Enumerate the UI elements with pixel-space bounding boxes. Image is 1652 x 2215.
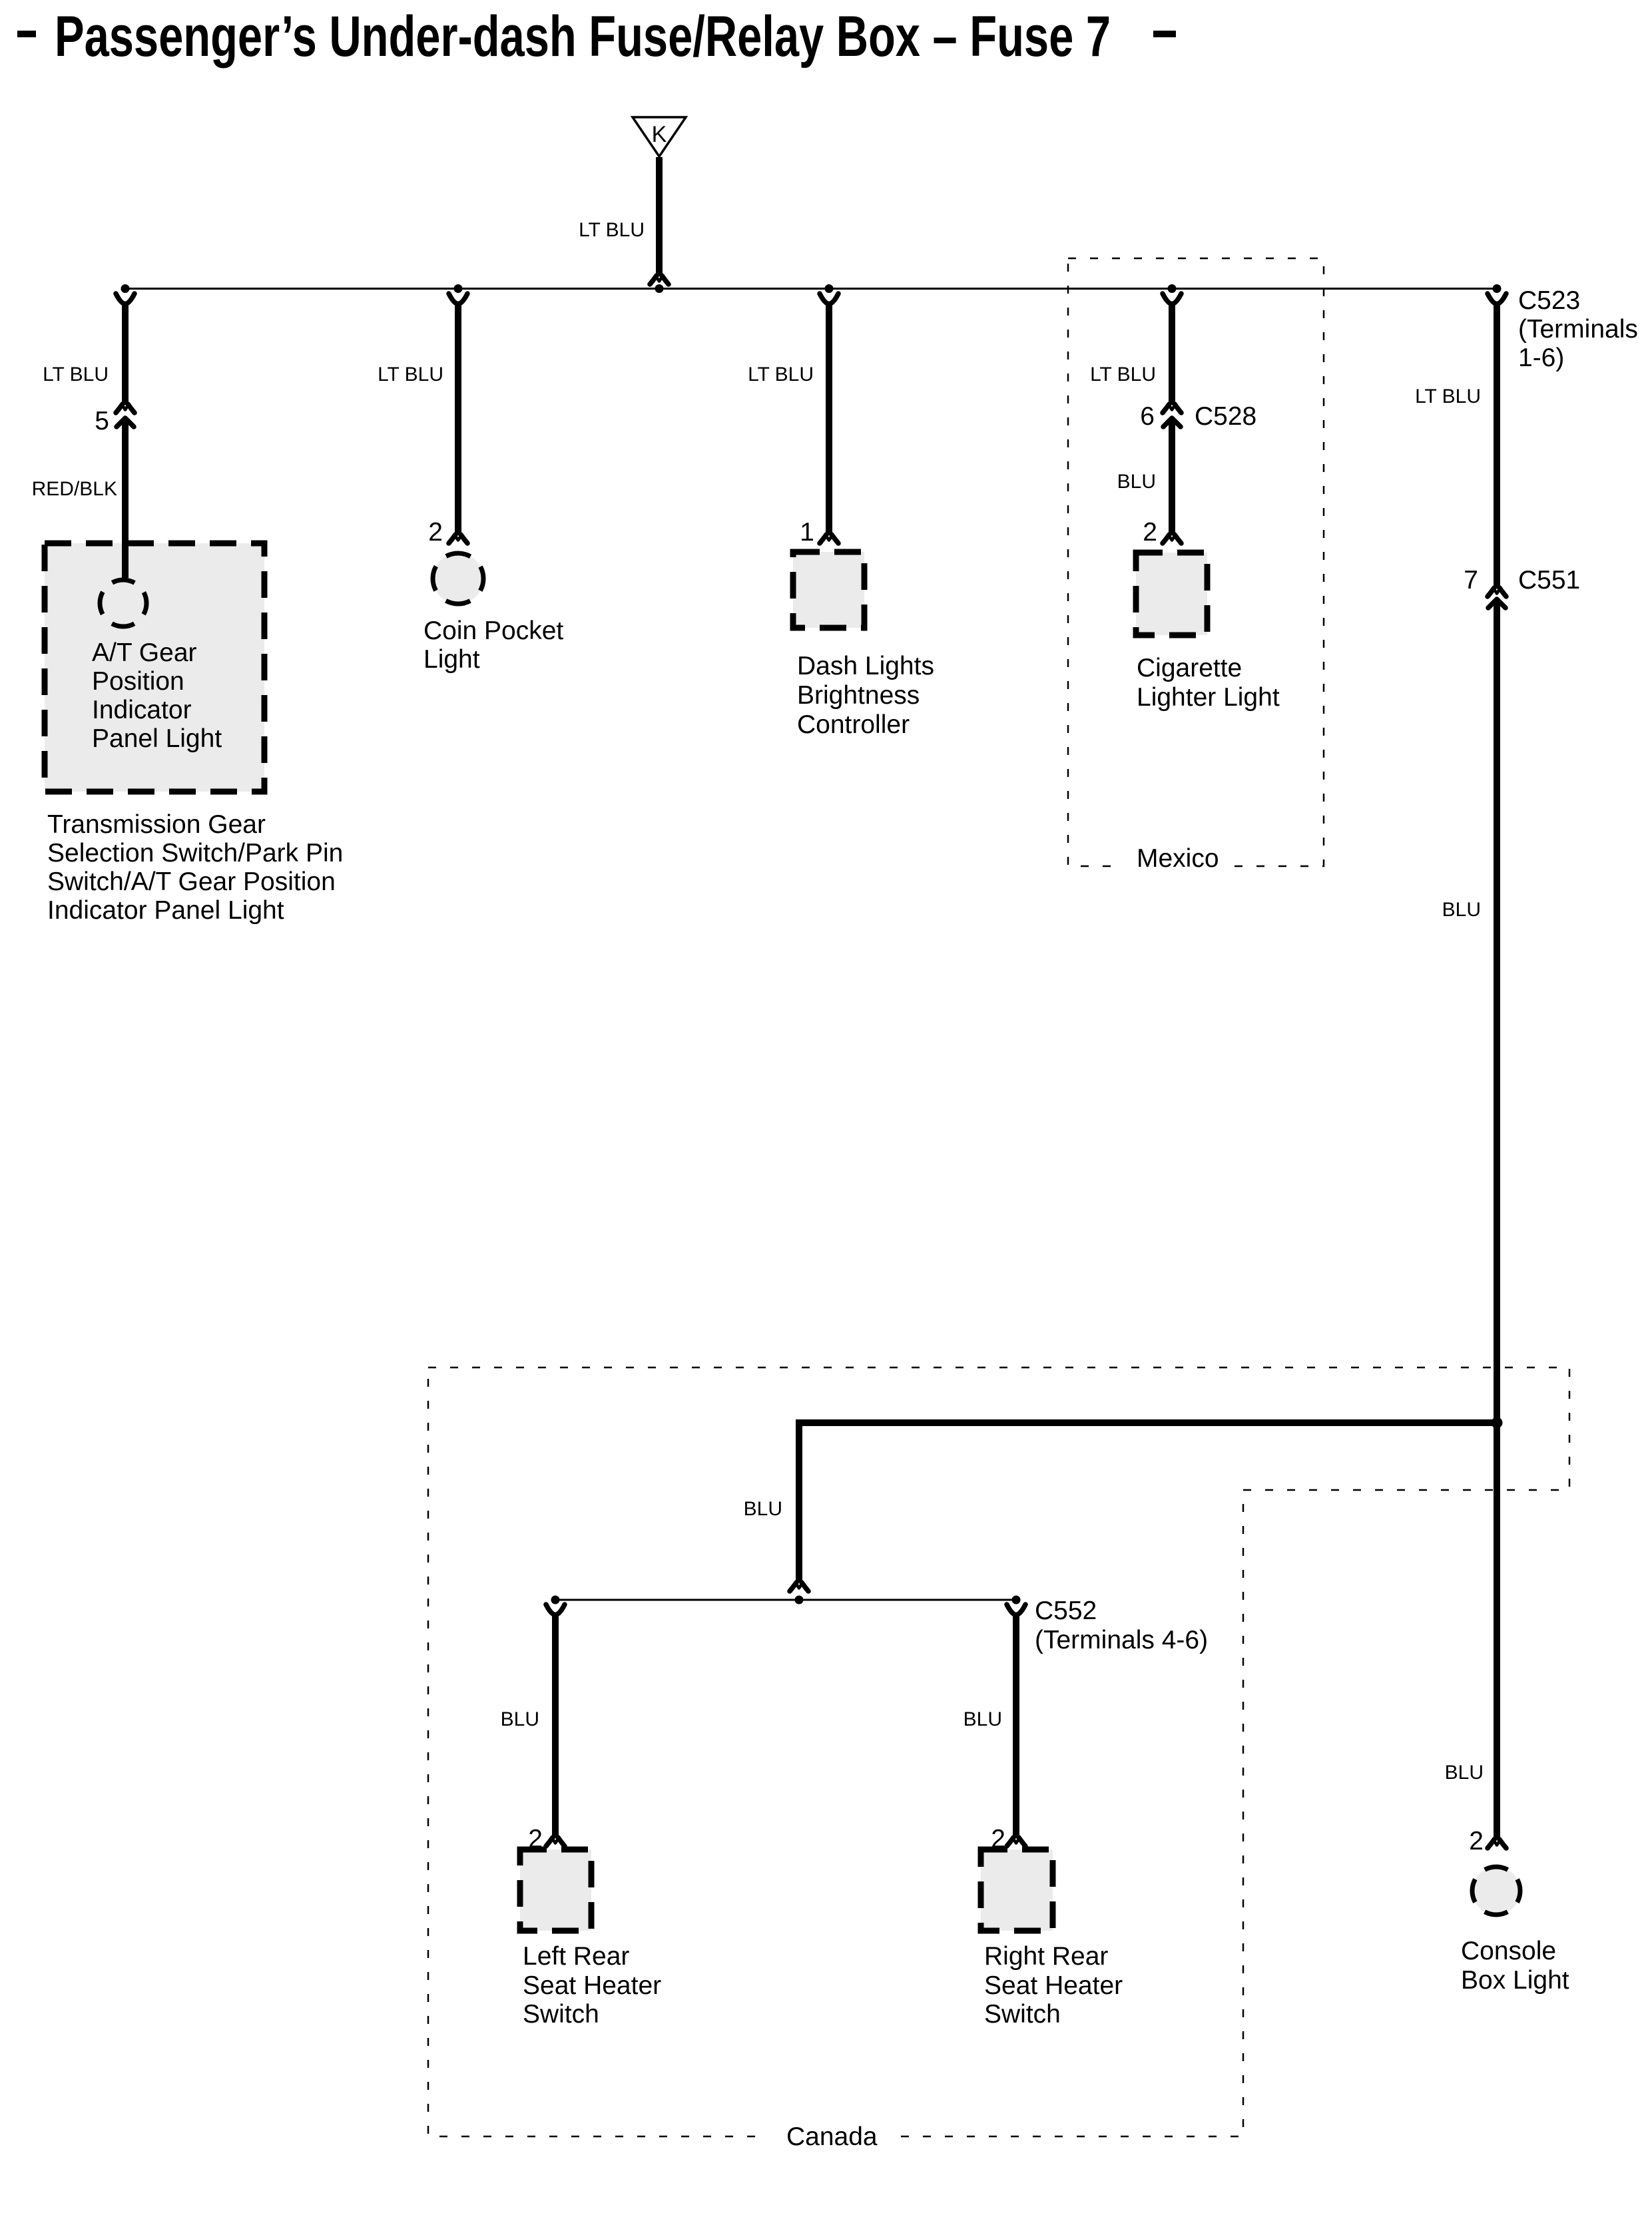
svg-text:Position: Position	[92, 667, 184, 696]
svg-text:C551: C551	[1518, 566, 1580, 595]
inline connector terminal 7, C551	[1464, 566, 1580, 608]
svg-text:BLU: BLU	[964, 1708, 1002, 1730]
svg-text:5: 5	[95, 407, 109, 435]
label: Canada	[762, 2120, 889, 2152]
svg-text:(Terminals 4-6): (Terminals 4-6)	[1035, 1626, 1208, 1654]
label: Right Rear Seat Heater Switch	[984, 1942, 1123, 2029]
svg-text:LT BLU: LT BLU	[1415, 385, 1481, 407]
female terminal below bus (C523 feed)	[1488, 294, 1506, 304]
svg-text:A/T Gear: A/T Gear	[92, 638, 197, 667]
svg-text:Dash Lights: Dash Lights	[797, 652, 934, 680]
svg-text:K: K	[652, 122, 667, 147]
node: bus junction cigarette lighter	[1168, 284, 1177, 293]
male terminal pin 2 (console box light)	[1469, 1827, 1506, 1855]
svg-text:Transmission Gear: Transmission Gear	[47, 810, 266, 839]
svg-text:Switch: Switch	[984, 2000, 1061, 2029]
svg-text:Seat Heater: Seat Heater	[984, 1971, 1123, 2000]
svg-text:1-6): 1-6)	[1518, 344, 1564, 372]
female terminal below bus (dash lights controller)	[820, 294, 838, 304]
label: Transmission Gear Selection Switch/Park Pin Switch	[47, 810, 343, 925]
node: splice junction (console/C552 tap)	[1492, 1417, 1503, 1429]
inline connector terminal 6, C528	[1140, 402, 1256, 431]
node: bus junction coin pocket light	[454, 284, 463, 293]
label: C523 (Terminals 1-6)	[1518, 286, 1638, 372]
svg-text:Right Rear: Right Rear	[984, 1942, 1108, 1971]
wire: left rear seat heater branch, BLU	[501, 1612, 555, 1838]
node: C552 bus left	[551, 1596, 560, 1604]
label: Coin Pocket Light	[423, 616, 563, 674]
wire: branch 1 lower, RED/BLK	[32, 421, 125, 578]
svg-text:Switch/A/T Gear Position: Switch/A/T Gear Position	[47, 867, 336, 896]
svg-text:LT BLU: LT BLU	[748, 364, 814, 385]
wire: splice to C552 bus, BLU	[744, 1423, 1497, 1583]
female terminal below C552 bus (left)	[546, 1604, 565, 1615]
svg-text:Brightness: Brightness	[797, 681, 920, 710]
svg-text:C528: C528	[1195, 402, 1256, 431]
svg-text:Box Light: Box Light	[1461, 1966, 1569, 1995]
wire: branch 1 upper, LT BLU	[43, 302, 125, 405]
svg-text:LT BLU: LT BLU	[43, 364, 109, 385]
title	[17, 5, 1176, 69]
label: C552 (Terminals 4-6)	[1035, 1597, 1208, 1654]
label: Console Box Light	[1461, 1937, 1569, 1995]
female terminal below bus (branch 1)	[116, 294, 135, 304]
wire: right rear seat heater branch, BLU	[964, 1612, 1016, 1838]
svg-text:2: 2	[1469, 1827, 1484, 1855]
wire: coin pocket light branch, LT BLU	[378, 302, 458, 535]
svg-text:Seat Heater: Seat Heater	[523, 1971, 661, 2000]
wire: top bus splice (LT BLU)	[125, 288, 1497, 290]
wire: main feed upper, LT BLU	[1415, 302, 1497, 589]
female terminal below C552 bus (right)	[1007, 1604, 1025, 1615]
node: bus junction dash lights controller	[825, 284, 834, 293]
svg-text:Panel Light: Panel Light	[92, 724, 222, 753]
svg-text:Console: Console	[1461, 1937, 1556, 1965]
wire: cigarette lighter branch lower, BLU	[1117, 421, 1172, 535]
lamp: A/T gear position indicator panel light	[100, 580, 146, 626]
svg-text:Switch: Switch	[523, 2000, 599, 2029]
svg-text:7: 7	[1464, 566, 1478, 595]
female terminal below bus (cigarette lighter)	[1163, 294, 1181, 304]
node: bus junction C523 feed	[1493, 284, 1502, 293]
svg-text:Passenger’s Under-dash Fuse/Re: Passenger’s Under-dash Fuse/Relay Box – …	[55, 5, 1111, 69]
svg-text:Indicator: Indicator	[92, 696, 192, 724]
label: A/T Gear Position Indicator Panel Light	[92, 638, 222, 753]
svg-text:Selection Switch/Park Pin: Selection Switch/Park Pin	[47, 839, 343, 867]
svg-text:BLU: BLU	[1445, 1762, 1484, 1784]
label: Left Rear Seat Heater Switch	[523, 1942, 661, 2029]
wire: main feed middle, BLU	[1442, 602, 1497, 1423]
label: Mexico	[1122, 844, 1229, 881]
component box: dash lights brightness controller	[793, 552, 864, 628]
inline connector terminal 5	[95, 404, 135, 435]
svg-text:Light: Light	[423, 645, 480, 674]
svg-text:BLU: BLU	[744, 1498, 782, 1520]
svg-text:BLU: BLU	[501, 1708, 539, 1730]
component box: right rear seat heater switch	[981, 1849, 1053, 1931]
svg-text:Coin Pocket: Coin Pocket	[423, 616, 563, 645]
svg-text:Lighter Light: Lighter Light	[1137, 683, 1280, 712]
svg-text:2: 2	[1143, 518, 1157, 547]
node: bus junction K	[655, 284, 664, 293]
svg-text:6: 6	[1140, 402, 1155, 431]
region: Mexico dashed box	[1068, 258, 1324, 866]
svg-text:C552: C552	[1035, 1597, 1097, 1625]
node: C552 bus middle	[795, 1596, 804, 1604]
female terminal below bus (coin pocket light)	[449, 294, 467, 304]
wire: K drop, LT BLU	[579, 157, 659, 276]
male terminal at bus (K wire)	[650, 276, 669, 284]
wire: C552 bus	[555, 1599, 1016, 1601]
component box: left rear seat heater switch	[520, 1849, 591, 1931]
node: bus junction branch 1	[121, 284, 130, 293]
connector K (power from fuse 7)	[633, 117, 686, 156]
male terminal pin 2 (cigarette lighter light)	[1143, 518, 1181, 547]
label: Dash Lights Brightness Controller	[797, 652, 934, 739]
svg-text:2: 2	[428, 518, 443, 547]
svg-text:Canada: Canada	[786, 2122, 878, 2151]
component box: transmission gear selection switch	[45, 543, 264, 792]
svg-text:RED/BLK: RED/BLK	[32, 478, 117, 500]
male terminal pin 1 (dash lights controller)	[800, 518, 838, 547]
wire: dash lights controller branch, LT BLU	[748, 302, 829, 535]
male terminal pin 2 (coin pocket light)	[428, 518, 467, 547]
svg-text:Mexico: Mexico	[1137, 844, 1219, 873]
svg-text:(Terminals: (Terminals	[1518, 315, 1638, 344]
lamp: coin pocket light	[433, 553, 483, 604]
region: Canada dashed outline	[428, 1367, 1569, 2136]
svg-text:1: 1	[800, 518, 814, 547]
node: C552 bus right	[1012, 1596, 1021, 1604]
svg-text:LT BLU: LT BLU	[378, 364, 443, 385]
male terminal pin 2 (right rear seat heater switch)	[991, 1825, 1025, 1853]
male terminal pin 2 (left rear seat heater switch)	[528, 1825, 565, 1853]
svg-text:Cigarette: Cigarette	[1137, 654, 1242, 682]
svg-text:LT BLU: LT BLU	[1090, 364, 1156, 385]
svg-text:Indicator Panel Light: Indicator Panel Light	[47, 896, 284, 925]
wire: cigarette lighter branch upper, LT BLU	[1090, 302, 1172, 405]
label: Cigarette Lighter Light	[1137, 654, 1280, 712]
svg-text:LT BLU: LT BLU	[579, 219, 645, 241]
component box: cigarette lighter light	[1136, 553, 1207, 635]
male terminal at C552 bus	[790, 1583, 808, 1591]
svg-text:C523: C523	[1518, 286, 1580, 315]
svg-text:BLU: BLU	[1117, 471, 1156, 493]
lamp: console box light	[1472, 1867, 1520, 1915]
wire: console box light branch, BLU	[1445, 1423, 1497, 1840]
svg-text:BLU: BLU	[1442, 899, 1481, 921]
svg-text:Left Rear: Left Rear	[523, 1942, 629, 1971]
svg-text:Controller: Controller	[797, 710, 910, 739]
